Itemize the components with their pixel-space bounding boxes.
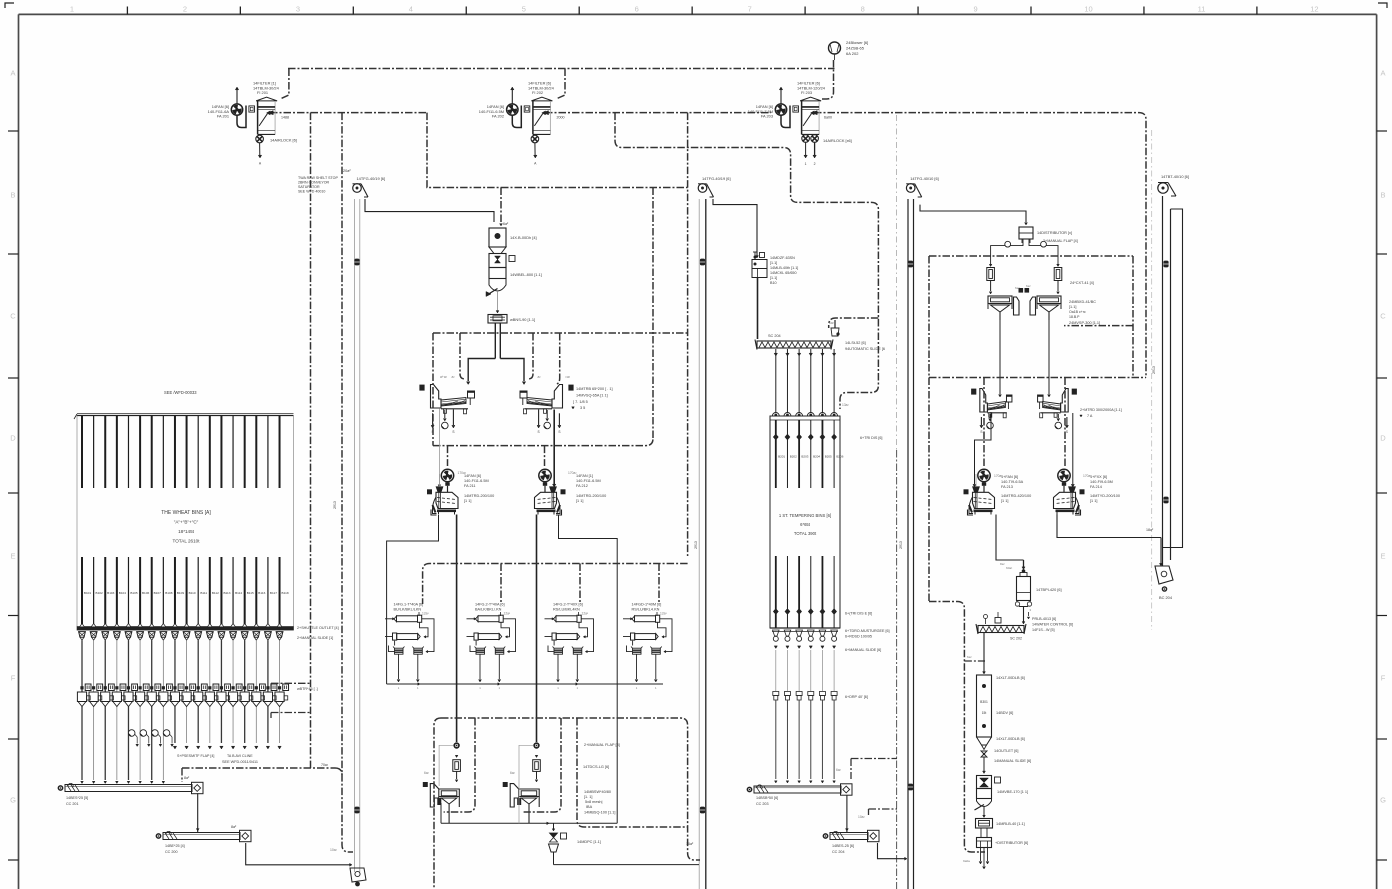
svg-text:FI 202: FI 202 — [532, 90, 543, 95]
svg-text:14FGD-1*40M [6]: 14FGD-1*40M [6] — [632, 603, 662, 607]
svg-text:TA B.AVI CLINE: TA B.AVI CLINE — [227, 754, 253, 758]
pulse box FI203 — [793, 106, 799, 112]
svg-text:a+a²: a+a² — [440, 375, 448, 379]
tempering distribution group 14MDZF-63SN — [752, 252, 798, 285]
svg-text:6+RDSD 100/95: 6+RDSD 100/95 — [845, 635, 872, 639]
feeder 14MDPC — [549, 829, 601, 865]
svg-text:2+MANUAL FLAP [4]: 2+MANUAL FLAP [4] — [1043, 239, 1078, 243]
svg-text:[1 1]: [1 1] — [1001, 499, 1008, 503]
mills aspiration dash manifold — [423, 564, 688, 605]
bin feeder gate row wBTR*45 — [80, 684, 288, 691]
svg-text:14MRLB-40 [1.1]: 14MRLB-40 [1.1] — [996, 822, 1025, 826]
hopper feed valve A — [439, 742, 460, 786]
svg-text:G: G — [1380, 796, 1386, 805]
svg-text:14BSB*50 [6]: 14BSB*50 [6] — [756, 796, 778, 800]
product line to elevator TFG-40/19b boot — [554, 864, 700, 866]
svg-text:TOTAL 390t: TOTAL 390t — [794, 531, 817, 536]
sifter B feed to dampener — [553, 410, 555, 485]
svg-text:[1 1]: [1 1] — [576, 499, 583, 503]
svg-text:B206: B206 — [836, 455, 843, 459]
tempering aspiration dash loop — [615, 113, 878, 409]
svg-text:B118: B118 — [282, 591, 289, 595]
svg-text:THE WHEAT BINS [A]: THE WHEAT BINS [A] — [161, 510, 211, 516]
duct drop x=342 — [342, 113, 353, 852]
svg-text:D: D — [10, 434, 16, 443]
svg-text:10: 10 — [1084, 5, 1092, 14]
flow balancer 24CXT A — [987, 264, 995, 294]
second cleaning dash box — [929, 255, 1133, 257]
svg-text:8: 8 — [861, 5, 865, 14]
distributor wBNS-90 — [488, 315, 535, 324]
svg-text:SEE /WFD-00033: SEE /WFD-00033 — [164, 390, 197, 395]
svg-text:14MTYD-200/100: 14MTYD-200/100 — [1090, 494, 1120, 498]
airlocks FI203 — [802, 135, 819, 166]
svg-text:B202: B202 — [790, 455, 797, 459]
limit switch squares — [1019, 288, 1024, 293]
fan FA202 — [507, 87, 522, 128]
svg-text:9: 9 — [974, 5, 978, 14]
svg-text:14MANUAL SLIDE [6]: 14MANUAL SLIDE [6] — [994, 759, 1031, 763]
svg-text:6a²: 6a² — [967, 655, 971, 659]
svg-text:IBA: IBA — [586, 805, 593, 809]
distributor outlet arrows — [979, 848, 989, 870]
conveyor CC201 inlet arrows — [81, 781, 165, 783]
svg-text:B: B — [1380, 191, 1385, 200]
tempering bins bottom outlets — [773, 630, 838, 783]
chain conveyor CC201 — [58, 782, 203, 806]
tempering aspiration branch to SC204 — [829, 318, 879, 328]
svg-text:1+FXX [6]: 1+FXX [6] — [1090, 475, 1107, 479]
aspiration drop to filter FI201 — [280, 69, 289, 100]
magnet separator 14X.B-00Dh — [489, 228, 537, 254]
svg-text:2+MANUAL FLAP [3]: 2+MANUAL FLAP [3] — [584, 743, 620, 747]
feeder 14MRLB-40 — [976, 819, 1025, 829]
svg-text:SEE WFD-0011/0411: SEE WFD-0011/0411 — [222, 760, 258, 764]
dampener 24 discharge to junction — [996, 515, 1024, 561]
labels bottom hoppers — [424, 743, 620, 815]
CC204 discharge to elevator 40/10 boot — [878, 843, 907, 859]
svg-text:B105: B105 — [130, 591, 138, 595]
filter FI202 outlet arrow — [543, 111, 548, 115]
labels FA202/FI202 — [479, 81, 555, 119]
roller mill group 14FG.2 — [467, 603, 516, 691]
svg-text:14WATER CONTROL [6]: 14WATER CONTROL [6] — [1032, 623, 1073, 627]
svg-text:CC 204: CC 204 — [832, 850, 845, 854]
svg-text:24MBXD-41/BC: 24MBXD-41/BC — [1069, 300, 1096, 304]
elevator 14TBT-40/10 takeups — [1163, 261, 1168, 268]
svg-text:FI 203: FI 203 — [801, 90, 812, 95]
svg-text:6a00: 6a00 — [824, 115, 832, 119]
border frame — [19, 13, 1377, 15]
svg-text:E: E — [10, 552, 15, 561]
svg-text:B10: B10 — [770, 281, 777, 285]
distributor bottom right — [977, 838, 1029, 848]
svg-text:15t: 15t — [982, 711, 987, 715]
svg-text:18a²: 18a² — [1146, 528, 1154, 532]
chain conveyor CC203 — [747, 784, 852, 806]
separator 14MTRB B — [520, 385, 574, 414]
distributor 14DISTRIBUTOR — [1019, 227, 1078, 243]
intensive dampener 24MYFD B — [1054, 469, 1085, 515]
chain conveyor CC204 — [823, 830, 879, 854]
svg-text:14MLB-40th [1.1]: 14MLB-40th [1.1] — [770, 266, 798, 270]
svg-text:FA 201: FA 201 — [217, 114, 229, 119]
bin B301 — [977, 675, 992, 774]
svg-text:14MBSQ-100 [1.1]: 14MBSQ-100 [1.1] — [584, 811, 615, 815]
svg-text:14TFG-40/19 [6]: 14TFG-40/19 [6] — [702, 176, 731, 181]
svg-text:7 A: 7 A — [1087, 414, 1093, 418]
aspiration hook hopper A — [444, 718, 475, 812]
svg-text:6a²: 6a² — [1015, 286, 1019, 290]
svg-text:2: 2 — [814, 162, 816, 166]
svg-text:18.B.P: 18.B.P — [1069, 315, 1080, 319]
svg-text:=a²: =a² — [565, 375, 571, 379]
svg-text:6+TRI DIS [6]: 6+TRI DIS [6] — [860, 436, 882, 440]
svg-text:12: 12 — [1310, 5, 1318, 14]
svg-text:14OUTLET [6]: 14OUTLET [6] — [994, 749, 1018, 753]
svg-text:3: 3 — [296, 5, 300, 14]
bin discharge drop lines — [82, 640, 280, 780]
airlock FI201 — [256, 135, 264, 165]
svg-text:14TBPI-420 [6]: 14TBPI-420 [6] — [1036, 588, 1062, 592]
svg-text:"A"+"B"+"C": "A"+"B"+"C" — [174, 520, 199, 525]
aspiration drop to filter FI202 — [556, 69, 565, 100]
feed elevator 40/10 to distributor — [920, 205, 1026, 222]
svg-text:14MTRD-200/100: 14MTRD-200/100 — [576, 494, 606, 498]
svg-text:60a²: 60a² — [1006, 566, 1012, 570]
svg-text:4: 4 — [409, 5, 413, 14]
blower instrument 24ZSB-65 — [829, 40, 869, 60]
vertical feeder 14TBPI-420 — [1015, 569, 1061, 624]
svg-text:B111: B111 — [200, 591, 207, 595]
svg-text:G: G — [10, 796, 16, 805]
svg-text:14F1S...W [5]: 14F1S...W [5] — [1032, 628, 1055, 632]
svg-text:[1.1]: [1.1] — [770, 276, 777, 280]
svg-text:A: A — [10, 69, 15, 78]
dampener secondary outlets to mill feeds — [387, 515, 439, 684]
svg-text:wBTR*45 [ .]: wBTR*45 [ .] — [297, 687, 318, 691]
intensive dampener 14MTRD-200/100 B — [535, 469, 566, 515]
svg-text:5x8 mesh|: 5x8 mesh| — [585, 800, 602, 804]
svg-text:2913: 2913 — [333, 501, 337, 509]
svg-text:5: 5 — [522, 5, 526, 14]
svg-text:14MTRD-420/100: 14MTRD-420/100 — [1001, 494, 1031, 498]
elevator 14TBT-40/10 boot — [1155, 538, 1173, 601]
aspiration stub TBPI — [964, 660, 985, 662]
bucket elevator 14TFG-40/19 legs — [355, 199, 360, 872]
svg-text:14X.B-00Dh [4]: 14X.B-00Dh [4] — [510, 235, 537, 240]
svg-text:14AIRLOCK [6]: 14AIRLOCK [6] — [270, 138, 297, 143]
scale hopper 14MBSW B — [503, 782, 540, 823]
svg-text:3 5: 3 5 — [580, 406, 585, 410]
svg-text:S: S — [452, 430, 454, 434]
svg-text:6a²: 6a² — [1026, 284, 1030, 288]
aspiration flap at SC204 — [829, 320, 840, 336]
tempering bins feed drops — [772, 349, 837, 416]
svg-text:14TFG-40/10 [6]: 14TFG-40/10 [6] — [910, 176, 939, 181]
svg-text:6+TDRO-MUSTURGEE [6]: 6+TDRO-MUSTURGEE [6] — [845, 629, 890, 633]
elevator 14TFG-40/19 bottom boot — [350, 868, 366, 886]
filter FI203 outlet arrow — [812, 111, 817, 115]
pulse box FI202 — [524, 106, 530, 112]
elevator 14TFG-40/19 head — [353, 176, 386, 197]
separator 14MTRB A — [419, 385, 474, 414]
intensive dampener 24MYFD A — [964, 469, 995, 515]
filter FI201 outlet arrow — [268, 111, 273, 115]
svg-text:B107: B107 — [154, 591, 162, 595]
svg-text:B106: B106 — [142, 591, 150, 595]
svg-text:12a²: 12a² — [504, 612, 512, 616]
svg-text:14FG.1-T*40A [6]: 14FG.1-T*40A [6] — [394, 603, 424, 607]
wheat bins B101-B118 dividers upper — [82, 416, 280, 489]
svg-text:6+MANUAL SLIDE [6]: 6+MANUAL SLIDE [6] — [845, 648, 881, 652]
svg-text:B201: B201 — [778, 455, 785, 459]
svg-text:BC 204: BC 204 — [1159, 595, 1173, 600]
svg-text:6: 6 — [635, 5, 639, 14]
elevator 14TBT-40/10 return pipe — [1163, 209, 1183, 548]
filter FI203 — [800, 97, 821, 134]
svg-text:TOTAL 2610t: TOTAL 2610t — [173, 539, 201, 544]
moisturizer A arrows — [980, 414, 993, 434]
svg-text:RS/LU/BKL4.KN: RS/LU/BKL4.KN — [632, 608, 660, 612]
svg-text:14TBT-40/10 [6]: 14TBT-40/10 [6] — [1161, 174, 1189, 179]
moisturizer B arrows — [1055, 414, 1068, 434]
wheat bin number labels — [84, 591, 289, 595]
moisturizer 24MTRD A — [971, 389, 1012, 418]
svg-text:6A 202: 6A 202 — [846, 51, 859, 56]
svg-text:CC 201: CC 201 — [66, 802, 79, 806]
svg-text:7: 7 — [748, 5, 752, 14]
hopper scale 14WBEL-800 — [486, 254, 542, 297]
svg-text:14BES-25 [6]: 14BES-25 [6] — [832, 844, 854, 848]
labels shuttle flap / blend line — [177, 754, 258, 764]
svg-text:B115: B115 — [247, 591, 254, 595]
svg-text:14AIRLOCK [x6]: 14AIRLOCK [x6] — [823, 138, 852, 143]
weigher discharge line — [497, 291, 499, 311]
tempering bin labels — [778, 455, 844, 459]
svg-text:B116: B116 — [258, 591, 265, 595]
svg-text:B112: B112 — [212, 591, 219, 595]
labels dampener 24 A — [994, 474, 1031, 503]
bottom bar tempering bins — [770, 627, 840, 629]
svg-text:20a²: 20a² — [343, 169, 351, 173]
fan FA203 — [775, 87, 790, 128]
svg-text:14BES*25 [5]: 14BES*25 [5] — [66, 796, 88, 800]
svg-text:14MTRD-200/100: 14MTRD-200/100 — [464, 494, 494, 498]
svg-text:FA 214: FA 214 — [1090, 485, 1102, 489]
svg-text:B114: B114 — [235, 591, 242, 595]
svg-text:2BRN CONVEYOR: 2BRN CONVEYOR — [298, 181, 330, 185]
section match line right — [1151, 130, 1153, 630]
svg-text:B203: B203 — [801, 455, 808, 459]
svg-text:F: F — [1381, 674, 1386, 683]
shuttle outlet bar — [77, 627, 294, 631]
svg-text:2913: 2913 — [694, 541, 698, 549]
svg-text:11: 11 — [1198, 5, 1206, 14]
sifter area aspiration dash box — [433, 332, 688, 334]
svg-text:1 ST. TEMPERING BINS [6]: 1 ST. TEMPERING BINS [6] — [779, 513, 831, 518]
svg-text:[1 1]: [1 1] — [464, 499, 471, 503]
svg-text:12a²: 12a² — [422, 612, 430, 616]
labels dampener A — [458, 471, 495, 503]
svg-text:12a²: 12a² — [582, 612, 590, 616]
svg-text:B110: B110 — [189, 591, 196, 595]
svg-text:14FG.2-T*40X [6]: 14FG.2-T*40X [6] — [553, 603, 583, 607]
svg-text:S: S — [558, 430, 560, 434]
pulse box FI201 — [249, 106, 255, 112]
bottom aspiration dash box — [441, 718, 700, 860]
svg-text:CC 200: CC 200 — [165, 850, 178, 854]
wheat bins capacity text — [161, 510, 211, 544]
svg-text:B117: B117 — [270, 591, 277, 595]
svg-text:14MCKL 65/650: 14MCKL 65/650 — [770, 271, 797, 275]
duct drop x=501 into magnet — [500, 188, 502, 223]
roller mill group 14FG.3 — [545, 603, 594, 691]
sifter A feed to dampener — [438, 409, 440, 485]
aspiration manifold to dampener fans — [433, 439, 653, 446]
svg-text:D: D — [1380, 434, 1386, 443]
left row ticks and letters — [8, 69, 19, 861]
elevator 14TFG-40/10 takeups — [908, 261, 913, 268]
svg-text:14MTRB 65*200 [ . 1]: 14MTRB 65*200 [ . 1] — [576, 387, 613, 391]
hopper feed valve B — [519, 742, 540, 786]
distributor branch valves — [991, 239, 1058, 264]
svg-text:FA 212: FA 212 — [576, 484, 588, 488]
svg-text:1488: 1488 — [281, 115, 289, 119]
svg-text:B102: B102 — [96, 591, 104, 595]
svg-text:SC 204: SC 204 — [768, 334, 781, 338]
hopper discharge collect line — [441, 786, 617, 829]
svg-text:B301: B301 — [980, 700, 988, 704]
svg-text:B113: B113 — [223, 591, 230, 595]
svg-text:SEE WFD 40010: SEE WFD 40010 — [298, 190, 325, 194]
CC201 to CC200 drop — [197, 793, 199, 832]
svg-text:1+FAN [6]: 1+FAN [6] — [1001, 475, 1018, 479]
svg-text:24ZSB-65: 24ZSB-65 — [846, 46, 865, 51]
tempering bottom aspiration dashes — [850, 759, 852, 780]
moisturizer products to dampeners — [975, 412, 992, 484]
svg-text:F: F — [11, 674, 16, 683]
svg-text:14FAN [1]: 14FAN [1] — [576, 474, 593, 478]
screw conveyor SC202 — [976, 624, 1026, 641]
elevator 14TFG-40/19 takeups — [354, 259, 359, 266]
aspiration main duct - top dash line — [288, 68, 835, 70]
elevator 14TFG-40/10 head — [906, 176, 939, 197]
labels separators — [572, 387, 613, 410]
svg-text:14MVBE-170 [1 1]: 14MVBE-170 [1 1] — [997, 790, 1028, 794]
svg-text:9a0a: 9a0a — [963, 859, 970, 863]
chain conveyor CC200 — [156, 830, 251, 854]
note labels top left area — [298, 169, 351, 194]
dash drops to fans 24 — [983, 378, 985, 467]
mill collection line — [387, 683, 663, 824]
svg-text:14FG.2-T*40A [6]: 14FG.2-T*40A [6] — [475, 603, 505, 607]
svg-text:24MVSP-300 [1.1]: 24MVSP-300 [1.1] — [1069, 321, 1100, 325]
svg-text:BA/LK/BKL/.KN: BA/LK/BKL/.KN — [475, 608, 502, 612]
feed line elevator b to tempering distributor — [713, 199, 757, 256]
svg-text:12a²: 12a² — [660, 612, 668, 616]
svg-text:70a²: 70a² — [321, 763, 329, 767]
svg-text:14XLT-00DLB [6]: 14XLT-00DLB [6] — [996, 676, 1025, 680]
svg-text:1: 1 — [70, 5, 74, 14]
svg-text:14LSt-52 [6]: 14LSt-52 [6] — [845, 341, 866, 345]
roller mill group 14FG.1 — [385, 603, 434, 691]
svg-text:FA 202: FA 202 — [492, 114, 504, 119]
labels dampener B — [568, 471, 606, 503]
svg-text:6+DRP 40' [6]: 6+DRP 40' [6] — [845, 695, 868, 699]
wheat bins dividers lower — [82, 557, 280, 627]
svg-text:S: S — [538, 430, 540, 434]
tempering bins dividers — [773, 420, 837, 628]
section match line middle — [896, 115, 898, 450]
svg-text:FI 201: FI 201 — [257, 90, 268, 95]
labels FA203/FI203 — [748, 81, 852, 144]
intensive dampener 14MTRD-200/100 A — [427, 469, 458, 515]
svg-text:B108: B108 — [165, 591, 173, 595]
labels SC202 — [984, 608, 1074, 632]
svg-text:140-FI11-6.5M: 140-FI11-6.5M — [576, 479, 601, 483]
svg-text:CC 203: CC 203 — [756, 802, 769, 806]
filter FI202 — [531, 97, 552, 134]
svg-text:14MDZF-63SN: 14MDZF-63SN — [770, 256, 795, 260]
fan FA201 — [231, 87, 246, 128]
svg-text:13a²: 13a² — [842, 403, 850, 407]
labels B301 chain — [994, 676, 1031, 763]
svg-text:14MVSQ-65A [1 1]: 14MVSQ-65A [1 1] — [576, 394, 608, 398]
moisturizer 24MTRD B — [1038, 389, 1077, 418]
svg-text:BU/LK/BKL/LKN: BU/LK/BKL/LKN — [394, 608, 422, 612]
svg-text:14FAN [6]: 14FAN [6] — [464, 474, 481, 478]
svg-text:14BDV [6]: 14BDV [6] — [996, 711, 1013, 715]
top column ticks and numbers — [70, 5, 1319, 15]
svg-text:TWA RAW SHELT STOP: TWA RAW SHELT STOP — [298, 176, 338, 180]
svg-text:wBNS-90 [1.1]: wBNS-90 [1.1] — [510, 317, 535, 322]
flow balancer B — [533, 755, 541, 782]
svg-text:S: S — [1066, 430, 1068, 434]
labels dampener 24 B — [1083, 474, 1120, 503]
svg-text:B101: B101 — [84, 591, 92, 595]
svg-text:14MBSW*40/80: 14MBSW*40/80 — [584, 790, 611, 794]
svg-text:C: C — [1380, 312, 1386, 321]
bucket elevator 14TBT-40/10 legs — [1163, 196, 1171, 566]
svg-text:2: 2 — [183, 5, 187, 14]
aspiration hook hopper B — [524, 718, 561, 812]
svg-text:RS/LU/BKL4KN: RS/LU/BKL4KN — [553, 608, 580, 612]
feed split to sifters — [467, 323, 526, 385]
tempering bins capacity text — [779, 513, 831, 536]
weigher 24MVBE-170 — [975, 776, 1029, 811]
filter FI201 — [256, 97, 277, 134]
svg-text:18*145t: 18*145t — [178, 529, 195, 534]
svg-text:[1.1]: [1.1] — [1069, 305, 1076, 309]
svg-text:2+MTRD 300/2000A [1.1]: 2+MTRD 300/2000A [1.1] — [1080, 408, 1122, 412]
flow balancer A — [453, 755, 461, 782]
aspiration hooks to bins discharge — [271, 682, 311, 684]
duct drop x=310 — [310, 113, 312, 768]
svg-text:2+MANUAL SLIDE [1]: 2+MANUAL SLIDE [1] — [297, 636, 333, 640]
screw conveyor SC204 — [755, 334, 833, 350]
labels FA201/FI201 — [208, 81, 297, 143]
duct corner to cleaning magnet — [427, 113, 501, 188]
svg-text:B205: B205 — [825, 455, 832, 459]
svg-text:2+SHUTTLE OUTLET [4]: 2+SHUTTLE OUTLET [4] — [297, 626, 339, 630]
feed line elevator to magnet — [365, 199, 494, 222]
svg-text:S+PSESMITF FLAP [4]: S+PSESMITF FLAP [4] — [177, 754, 214, 758]
svg-text:14TDCS-LG [6]: 14TDCS-LG [6] — [583, 765, 609, 769]
right row ticks and letters — [1377, 69, 1387, 861]
svg-text:14BE*25 [4]: 14BE*25 [4] — [165, 844, 185, 848]
svg-text:10a²: 10a² — [858, 815, 866, 819]
